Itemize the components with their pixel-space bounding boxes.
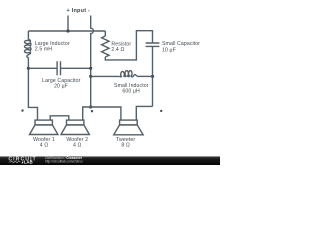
svg-text:8 Ω: 8 Ω xyxy=(121,142,130,148)
svg-text:2.4 Ω: 2.4 Ω xyxy=(111,47,124,53)
logo: zigzag xyxy=(9,161,21,163)
wire: left rail upper xyxy=(27,31,29,40)
svg-text:+ Input -: + Input - xyxy=(67,8,91,14)
node junction: right rail to L2 row xyxy=(151,75,154,78)
wire: L2 left lead xyxy=(91,75,120,77)
node mark: asterisk right of Woofer 2 xyxy=(91,110,93,112)
inductor L1 Large Inductor 2.5 mH (coil) xyxy=(24,40,30,58)
wire: C1 right lead xyxy=(60,67,90,69)
capacitor C1 Large Capacitor 20 uF (plates) xyxy=(57,61,60,75)
svg-text:LAB: LAB xyxy=(24,160,33,165)
node junction: + input to top bus xyxy=(66,29,69,32)
logo: lightning mark xyxy=(21,161,23,164)
svg-text:20 µF: 20 µF xyxy=(54,84,68,90)
svg-text:10 µF: 10 µF xyxy=(162,47,176,53)
wire: C1 left lead xyxy=(28,67,57,69)
wire: tweeter right terminal to right rail xyxy=(136,106,152,120)
node mark: asterisk right of Tweeter xyxy=(160,110,162,112)
node mark: asterisk left of Woofer 1 xyxy=(21,109,23,111)
wire: woofer1 right to woofer2 left bridge xyxy=(50,116,69,120)
node junction: left rail to C1 row xyxy=(27,67,30,70)
speaker SPK3 Tweeter (cone) xyxy=(114,125,143,135)
wire: R1 bottom lead over to C2 top xyxy=(105,31,152,60)
wire: left rail lower xyxy=(28,57,37,120)
node junction: C1 to minus rail xyxy=(89,67,92,70)
speaker SPK1 Woofer 1 (frame) xyxy=(35,120,52,125)
wire: R1 top lead xyxy=(104,31,106,36)
svg-text:Small Capacitor: Small Capacitor xyxy=(162,41,200,47)
svg-text:4 Ω: 4 Ω xyxy=(73,142,82,148)
speaker SPK3 Tweeter (frame) xyxy=(120,120,138,125)
speaker SPK2 Woofer 2 (cone) xyxy=(61,125,89,135)
node junction: minus rail to speaker bus xyxy=(89,105,92,108)
wire: L2 right lead xyxy=(138,75,153,77)
capacitor C2 Small Capacitor 10 uF (plates) xyxy=(146,43,160,46)
wire: input - lead with crossover hop xyxy=(91,16,94,108)
speaker SPK2 Woofer 2 (frame) xyxy=(67,120,84,125)
wire: speaker bus right to tweeter left terminal xyxy=(91,107,121,120)
speaker SPK1 Woofer 1 (cone) xyxy=(30,125,58,135)
svg-text:2.5 mH: 2.5 mH xyxy=(35,46,52,52)
footer watermark bar xyxy=(0,156,220,165)
wire: C2 bottom lead down right rail xyxy=(152,46,154,106)
svg-text:600 µH: 600 µH xyxy=(122,89,140,95)
wire: speaker bus left to woofer2 right terminal xyxy=(83,107,91,120)
resistor R1 2.4 ohm (zigzag) xyxy=(102,36,109,57)
svg-text:4 Ω: 4 Ω xyxy=(40,142,49,148)
wire: input + lead xyxy=(67,16,69,32)
inductor L2 Small Inductor 600 uH (coil) xyxy=(119,71,138,77)
wire: top horizontal bus xyxy=(28,30,105,32)
svg-text:http://circuitlab.com/c/cbxu: http://circuitlab.com/c/cbxu xyxy=(45,159,83,163)
node junction: minus rail to L2 row xyxy=(89,75,92,78)
